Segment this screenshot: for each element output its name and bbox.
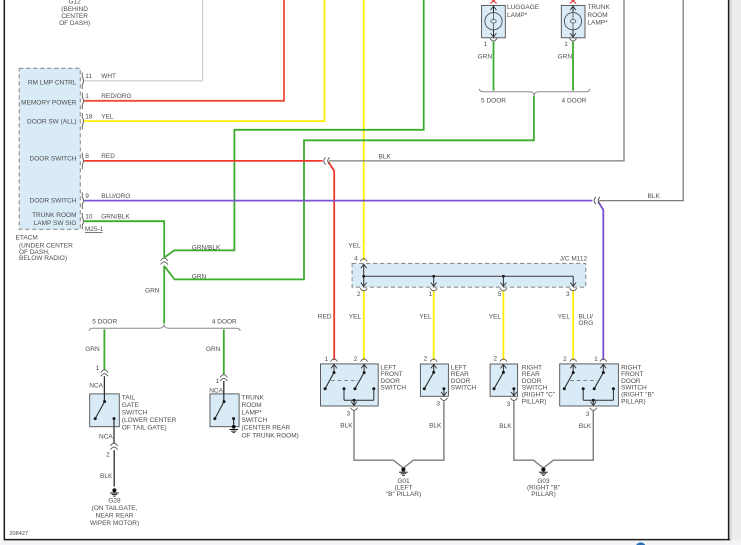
svg-text:1: 1 <box>85 93 89 100</box>
svg-text:ROOM: ROOM <box>242 402 262 409</box>
svg-text:YEL: YEL <box>419 313 432 320</box>
svg-text:BLK: BLK <box>340 423 353 430</box>
svg-text:(LOWER CENTER: (LOWER CENTER <box>122 417 177 424</box>
svg-text:1: 1 <box>564 41 568 48</box>
svg-text:DOOR SWITCH: DOOR SWITCH <box>30 155 77 162</box>
svg-text:OF DASH): OF DASH) <box>59 20 90 27</box>
svg-text:G12: G12 <box>68 0 81 6</box>
svg-text:OF TRUNK ROOM): OF TRUNK ROOM) <box>242 432 299 439</box>
svg-text:NCA: NCA <box>209 388 223 395</box>
svg-text:208427: 208427 <box>9 531 28 537</box>
svg-text:1: 1 <box>484 41 488 48</box>
svg-text:5 DOOR: 5 DOOR <box>92 318 117 325</box>
svg-text:ETACM: ETACM <box>16 234 38 241</box>
svg-text:LAMP*: LAMP* <box>242 410 263 417</box>
svg-text:BLK: BLK <box>429 423 442 430</box>
svg-text:11: 11 <box>85 73 92 80</box>
svg-text:BLK: BLK <box>579 423 592 430</box>
svg-text:BLK: BLK <box>648 193 661 200</box>
svg-text:PILLAR): PILLAR) <box>522 398 547 405</box>
svg-text:PILLAR): PILLAR) <box>621 398 646 405</box>
svg-text:GRN: GRN <box>478 54 493 61</box>
svg-text:RED/ORG: RED/ORG <box>101 93 131 100</box>
svg-text:SWITCH: SWITCH <box>451 385 477 392</box>
svg-text:3: 3 <box>507 401 511 408</box>
svg-text:GRN: GRN <box>85 346 100 353</box>
svg-text:RED: RED <box>318 313 332 320</box>
svg-text:5 DOOR: 5 DOOR <box>481 98 506 105</box>
svg-text:NCA: NCA <box>89 383 103 390</box>
svg-text:4: 4 <box>354 256 358 263</box>
svg-text:2: 2 <box>424 356 428 363</box>
svg-text:WIPER MOTOR): WIPER MOTOR) <box>90 520 139 527</box>
svg-text:RED: RED <box>101 153 115 160</box>
svg-text:G28: G28 <box>108 497 121 504</box>
svg-text:GRN/BLK: GRN/BLK <box>192 244 221 251</box>
svg-text:GRN: GRN <box>558 54 573 61</box>
svg-text:NEAR REAR: NEAR REAR <box>96 513 134 520</box>
svg-text:TRUNK: TRUNK <box>587 4 610 11</box>
svg-text:DOOR SW (ALL): DOOR SW (ALL) <box>27 118 76 125</box>
svg-text:3: 3 <box>586 411 590 418</box>
svg-text:YEL: YEL <box>101 113 114 120</box>
svg-text:LAMP SW SIG: LAMP SW SIG <box>34 220 77 227</box>
svg-text:BELOW RADIO): BELOW RADIO) <box>19 255 67 262</box>
svg-text:3: 3 <box>346 410 350 417</box>
svg-text:TRUNK ROOM: TRUNK ROOM <box>32 212 76 219</box>
svg-text:WHT: WHT <box>101 73 116 80</box>
svg-text:"B" PILLAR): "B" PILLAR) <box>386 491 421 498</box>
svg-text:LAMP*: LAMP* <box>587 20 608 27</box>
svg-text:TRUNK: TRUNK <box>242 394 265 401</box>
svg-text:1: 1 <box>594 356 598 363</box>
svg-text:RM LMP CNTRL: RM LMP CNTRL <box>28 79 77 86</box>
svg-text:(ON TAILGATE,: (ON TAILGATE, <box>92 505 138 512</box>
svg-text:5: 5 <box>498 291 502 298</box>
svg-text:2: 2 <box>357 291 361 298</box>
svg-text:YEL: YEL <box>558 313 571 320</box>
svg-text:YEL: YEL <box>489 313 502 320</box>
svg-text:BLK: BLK <box>100 473 113 480</box>
svg-text:1: 1 <box>429 291 433 298</box>
svg-text:GRN: GRN <box>145 288 160 295</box>
svg-text:10: 10 <box>85 214 93 221</box>
svg-text:4 DOOR: 4 DOOR <box>212 318 237 325</box>
svg-text:BLK: BLK <box>379 153 392 160</box>
svg-text:1: 1 <box>216 378 220 385</box>
svg-text:3: 3 <box>566 291 570 298</box>
svg-text:3: 3 <box>436 401 440 408</box>
svg-text:YEL: YEL <box>349 313 362 320</box>
svg-text:2: 2 <box>563 356 567 363</box>
svg-text:2: 2 <box>106 451 110 458</box>
svg-text:BLU/ORG: BLU/ORG <box>101 193 130 200</box>
svg-text:GRN: GRN <box>192 274 207 281</box>
svg-text:SWITCH: SWITCH <box>242 417 268 424</box>
svg-text:9: 9 <box>85 193 89 200</box>
svg-text:BLK: BLK <box>499 423 512 430</box>
svg-text:OF TAIL GATE): OF TAIL GATE) <box>122 425 167 432</box>
svg-text:TAIL: TAIL <box>122 394 136 401</box>
svg-text:(CENTER REAR: (CENTER REAR <box>242 425 291 432</box>
svg-text:GRN/BLK: GRN/BLK <box>101 214 130 221</box>
svg-text:18: 18 <box>85 113 93 120</box>
svg-text:LUGGAGE: LUGGAGE <box>507 4 540 11</box>
svg-text:GATE: GATE <box>122 402 140 409</box>
svg-text:MEMORY POWER: MEMORY POWER <box>21 99 77 106</box>
svg-text:GRN: GRN <box>206 346 221 353</box>
svg-text:CENTER: CENTER <box>61 13 88 20</box>
svg-text:ORG: ORG <box>579 320 594 327</box>
svg-text:J/C M112: J/C M112 <box>560 255 588 262</box>
svg-text:8: 8 <box>85 153 89 160</box>
svg-text:ROOM: ROOM <box>587 12 607 19</box>
svg-text:NCA: NCA <box>99 434 113 441</box>
svg-text:1: 1 <box>325 356 329 363</box>
svg-text:1: 1 <box>96 365 100 372</box>
svg-text:LAMP*: LAMP* <box>507 12 528 19</box>
svg-text:4 DOOR: 4 DOOR <box>562 98 587 105</box>
svg-text:(BEHIND: (BEHIND <box>61 6 88 13</box>
svg-text:SWITCH: SWITCH <box>122 410 148 417</box>
svg-text:SWITCH: SWITCH <box>380 385 406 392</box>
svg-text:YEL: YEL <box>348 243 361 250</box>
svg-text:2: 2 <box>354 356 358 363</box>
svg-text:DOOR SWITCH: DOOR SWITCH <box>30 198 77 205</box>
svg-text:PILLAR): PILLAR) <box>531 491 556 498</box>
svg-text:2: 2 <box>493 356 497 363</box>
